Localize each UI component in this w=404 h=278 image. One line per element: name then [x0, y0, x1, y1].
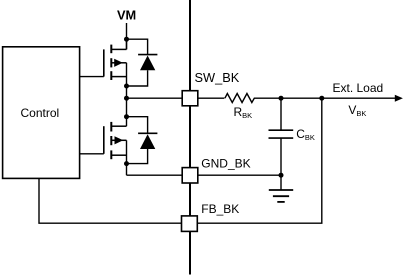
wire feedback from output node down to FB_BK pin: [197, 98, 321, 223]
svg-text:VM: VM: [117, 7, 136, 22]
transistor Q2 drain bar: [111, 125, 126, 127]
pin FB_BK box: [182, 216, 198, 232]
diode D1 anode lead wire: [127, 70, 148, 86]
node power ground junction dot: [124, 161, 129, 166]
diode D2 anode lead wire: [127, 149, 148, 164]
pin SW_BK box: [182, 91, 198, 106]
capacitor CBK top lead wire: [280, 98, 282, 130]
wire Q1 drain lead: [126, 39, 128, 49]
diode D1 triangle: [140, 56, 155, 71]
transistor Q1 channel segments: [110, 45, 112, 80]
svg-text:GND_BK: GND_BK: [201, 156, 250, 170]
wire Q2 body-source tie down to ground node: [126, 140, 128, 175]
transistor Q2 body bar with arrow: [111, 136, 126, 144]
wire GND_BK pin to capacitor bottom: [198, 174, 281, 176]
node feedback tap junction dot: [319, 96, 324, 101]
diode D1 cathode bar: [138, 54, 157, 56]
node capacitor bottom junction dot: [279, 173, 284, 178]
wire capacitor bottom to ground symbol: [280, 175, 282, 190]
capacitor CBK plates: [269, 130, 294, 138]
diode D2 body diode of Q2 cathode lead wire: [127, 117, 148, 134]
transistor Q2 channel segments: [110, 122, 112, 159]
transistor Q2 gate plate: [103, 126, 105, 154]
svg-text:SW_BK: SW_BK: [195, 70, 240, 85]
transistor Q1 source bar: [111, 76, 126, 78]
pin GND_BK box: [182, 168, 198, 183]
wire SW_BK pin to resistor: [198, 97, 225, 99]
svg-text:FB_BK: FB_BK: [201, 202, 239, 216]
node Q2 drain junction dot: [124, 114, 129, 119]
node Q1 source junction dot: [124, 84, 129, 89]
control block: [3, 47, 80, 179]
transistor Q1 gate plate: [103, 49, 105, 76]
transistor Q1 body bar with arrow: [111, 59, 126, 67]
IC boundary rail (segment between SW_BK and GND_BK): [189, 106, 191, 168]
diode D2 triangle: [140, 134, 155, 149]
ground: [269, 190, 293, 202]
resistor RBK zigzag: [225, 94, 254, 103]
node capacitor top junction dot: [279, 96, 284, 101]
arrowhead to Ext. Load: [395, 95, 403, 102]
capacitor CBK bottom lead wire: [280, 138, 282, 175]
transistor Q1 high-side NMOS gate lead wire: [80, 76, 104, 78]
wire VM stub to high-side drain: [126, 23, 128, 49]
wire half-bridge mid rail: [126, 63, 128, 126]
diode D2 cathode bar: [138, 132, 157, 134]
wire FB_BK pin to control block: [39, 179, 182, 224]
transistor Q2 low-side NMOS gate lead wire: [80, 153, 104, 155]
IC boundary rail (bottom segment): [189, 231, 191, 274]
transistor Q1 drain bar: [111, 48, 126, 50]
IC boundary rail (top segment): [189, 0, 191, 91]
svg-text:Ext. Load: Ext. Load: [333, 81, 384, 95]
node SW junction dot: [124, 96, 129, 101]
wire resistor to external load arrow: [254, 97, 396, 99]
wire SW node to SW_BK pin: [127, 97, 183, 99]
svg-text:Control: Control: [21, 106, 60, 120]
node VM junction dot: [124, 37, 129, 42]
IC boundary rail (segment between GND_BK and FB_BK): [189, 183, 191, 216]
transistor Q2 source bar: [111, 154, 126, 156]
diode D1 body diode of Q1 cathode lead wire: [127, 39, 148, 54]
wire ground node to GND_BK pin: [127, 174, 183, 176]
